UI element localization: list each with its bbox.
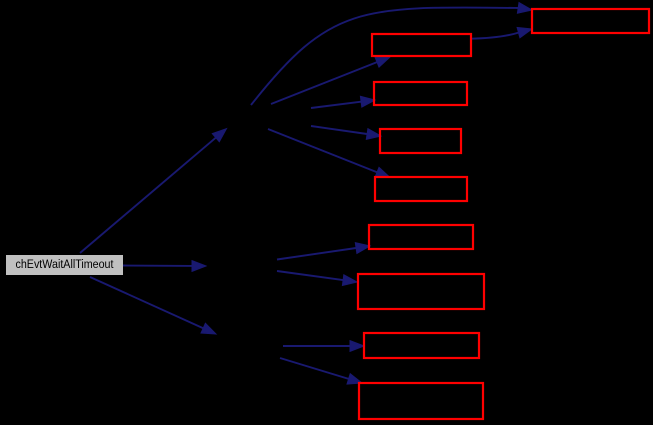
edge hidden node A -> box2 [271, 57, 390, 104]
edge hidden node A -> box1 (long top arc) [251, 3, 532, 105]
box7 (red node, tall) [358, 274, 484, 309]
edge chEvtWaitAllTimeout -> hidden node C [90, 277, 216, 334]
edge hidden node C -> box8 [283, 341, 364, 352]
box1 (red node, top right) [532, 9, 649, 33]
edge chEvtWaitAllTimeout -> hidden node A [80, 129, 227, 253]
edge box2 -> box1 [471, 27, 532, 38]
svg-text:chEvtWaitAllTimeout: chEvtWaitAllTimeout [16, 257, 115, 271]
box5 (red node) [375, 177, 467, 201]
edge hidden node A -> box5 [268, 129, 390, 178]
node chEvtWaitAllTimeout (current function, grey) [6, 255, 123, 275]
edge chEvtWaitAllTimeout -> hidden node B [123, 261, 206, 272]
edge hidden node B -> box6 [277, 243, 370, 260]
edge hidden node A -> box4 [311, 126, 381, 139]
edge hidden node C -> box9 [280, 358, 362, 384]
box3 (red node) [374, 82, 467, 105]
box6 (red node) [369, 225, 473, 249]
edge hidden node A -> box3 [311, 96, 375, 108]
edge hidden node B -> box7 [277, 271, 357, 286]
box8 (red node) [364, 333, 479, 358]
box4 (red node) [380, 129, 461, 153]
box9 (red node, tall) [359, 383, 483, 419]
box2 (red node) [372, 34, 471, 56]
